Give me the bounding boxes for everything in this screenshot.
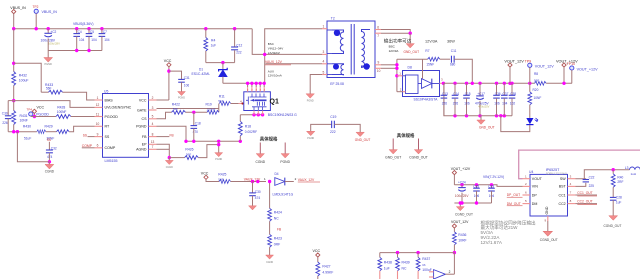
- svg-text:100NF: 100NF: [57, 110, 67, 114]
- ground R423: [266, 255, 274, 259]
- svg-text:VOUT_12V: VOUT_12V: [451, 220, 469, 224]
- resistor R18 0.002RF shunt: [239, 136, 241, 142]
- svg-text:GATE: GATE: [137, 108, 147, 112]
- svg-text:102: 102: [510, 101, 516, 105]
- svg-text:C13: C13: [442, 92, 448, 96]
- svg-text:56F: 56F: [534, 78, 539, 82]
- wire VIN column left: [13, 29, 15, 72]
- svg-text:VCC: VCC: [313, 249, 321, 253]
- transistor Q1 symbol: [246, 94, 267, 105]
- svg-text:EF 25.08: EF 25.08: [330, 82, 344, 86]
- capacitor C23 104: [491, 185, 493, 188]
- svg-text:PGND: PGND: [307, 100, 314, 103]
- svg-text:EP: EP: [142, 143, 147, 147]
- svg-text:VOUT_+12V: VOUT_+12V: [577, 67, 599, 71]
- wire R433 to BIAS pin 1: [63, 92, 95, 100]
- svg-text:R18: R18: [245, 124, 251, 128]
- wire VBUS_IN down: [13, 14, 15, 29]
- pin drain 8 Q1: [259, 83, 261, 87]
- capacitor C14 226: [454, 83, 456, 95]
- svg-text:BSC190N12NS3 G: BSC190N12NS3 G: [268, 113, 297, 117]
- pin 5 CS U5: [149, 118, 157, 120]
- pin 5 T2: [322, 74, 327, 76]
- svg-text:C31: C31: [184, 76, 190, 80]
- svg-text:PGND: PGND: [44, 62, 52, 66]
- svg-text:13: 13: [151, 140, 155, 144]
- svg-text:Q1: Q1: [270, 98, 279, 105]
- pin 7 CC1 U4: [568, 194, 576, 196]
- svg-text:10RF: 10RF: [458, 239, 466, 243]
- svg-text:VCC: VCC: [164, 59, 172, 63]
- svg-text:VBUS_IN: VBUS_IN: [10, 6, 26, 10]
- svg-text:GND_OUT: GND_OUT: [385, 156, 401, 160]
- resistor R430 51uF: [37, 130, 46, 134]
- capacitor C38 102: [511, 83, 513, 95]
- svg-text:6: 6: [377, 25, 379, 29]
- pin drain 5 Q1: [247, 83, 249, 87]
- pin 9 SS U5: [95, 136, 103, 138]
- capacitor C36 106: [496, 83, 498, 95]
- wire pins6-7 tie to GND_OUT: [381, 30, 410, 34]
- svg-text:VIN(7.2V-12V): VIN(7.2V-12V): [483, 175, 504, 179]
- svg-text:GND_OUT: GND_OUT: [355, 138, 371, 142]
- svg-text:7: 7: [377, 34, 379, 38]
- svg-text:1uF: 1uF: [384, 266, 390, 270]
- svg-text:具体规格: 具体规格: [397, 132, 415, 139]
- svg-text:9: 9: [97, 132, 99, 136]
- svg-text:CC1_OUT: CC1_OUT: [577, 191, 592, 195]
- svg-text:C28: C28: [616, 196, 622, 200]
- pin drain 9 Q1: [263, 83, 265, 87]
- op-amp U6 comparator (cut): [434, 270, 446, 279]
- wire CS to R422: [157, 112, 172, 119]
- svg-text:222: 222: [236, 51, 242, 55]
- ground C31: [178, 92, 186, 96]
- svg-text:106: 106: [494, 101, 500, 105]
- svg-text:VOUT: VOUT: [532, 177, 543, 181]
- svg-text:104: 104: [91, 38, 97, 42]
- pin 4 PGND U5: [149, 125, 157, 127]
- svg-text:CGND: CGND: [45, 170, 55, 174]
- svg-text:GND_OUT: GND_OUT: [479, 126, 495, 130]
- svg-text:BST: BST: [559, 185, 567, 189]
- svg-text:5: 5: [323, 70, 325, 74]
- svg-text:2: 2: [449, 270, 451, 274]
- svg-text:10NF: 10NF: [534, 96, 542, 100]
- svg-text:VIN12~34V: VIN12~34V: [268, 47, 283, 51]
- svg-text:225: 225: [589, 184, 595, 188]
- svg-text:R20: R20: [533, 88, 539, 92]
- svg-text:100NF: 100NF: [207, 107, 216, 111]
- ground AGND aux: [306, 94, 314, 98]
- svg-text:PGND: PGND: [307, 137, 314, 140]
- pin 11 PGOOD U5: [95, 116, 103, 118]
- resistor R425 56F: [219, 180, 231, 184]
- resistor R433 56F: [41, 91, 48, 93]
- svg-text:CGND_OUT: CGND_OUT: [540, 238, 558, 242]
- wire R426 to pgnd column: [198, 145, 218, 158]
- wire PGND rail: [186, 140, 240, 142]
- pin 3 D8: [440, 82, 445, 84]
- svg-text:R426: R426: [185, 147, 193, 151]
- svg-text:SS: SS: [47, 138, 51, 142]
- svg-text:PGND: PGND: [136, 125, 147, 129]
- svg-text:10NF: 10NF: [20, 119, 28, 123]
- wire PGND row: [157, 126, 187, 141]
- transformer T2: [327, 21, 375, 78]
- svg-text:R430: R430: [23, 124, 31, 128]
- pin 6 T2: [375, 29, 381, 31]
- svg-text:R436: R436: [458, 233, 466, 237]
- svg-text:NC: NC: [274, 216, 279, 220]
- svg-text:1uF: 1uF: [616, 201, 622, 205]
- svg-text:3: 3: [323, 50, 325, 54]
- wire pins9-10 tie: [381, 64, 397, 66]
- capacitor C25 106: [476, 185, 478, 188]
- diode D8 SS10P4A3/STA: [403, 71, 440, 97]
- svg-text:56F: 56F: [46, 87, 52, 91]
- svg-text:R429: R429: [45, 124, 53, 128]
- resistor R8 56F: [535, 81, 547, 85]
- svg-text:56F: 56F: [186, 152, 191, 156]
- svg-text:输出功率可达: 输出功率可达: [384, 38, 412, 45]
- svg-text:R439: R439: [402, 260, 410, 264]
- svg-text:12V/10mA: 12V/10mA: [268, 74, 282, 78]
- svg-text:3: 3: [152, 106, 154, 110]
- svg-text:4.99KF: 4.99KF: [322, 270, 333, 274]
- svg-text:R19: R19: [206, 102, 212, 106]
- wire VOUT rail: [444, 82, 535, 84]
- resistor R7 15NF: [397, 58, 428, 60]
- resistor R437 100uF: [417, 253, 419, 258]
- pin 10 T2: [375, 67, 381, 69]
- transistor Q1 BSC190N12NS3 G: [244, 92, 271, 111]
- svg-text:C15: C15: [465, 92, 471, 96]
- svg-text:LM5155: LM5155: [105, 159, 118, 163]
- svg-text:R438: R438: [384, 260, 392, 264]
- svg-text:56F: 56F: [218, 99, 223, 103]
- svg-text:VAUX_12V: VAUX_12V: [298, 178, 315, 182]
- ground GND_OUT secondary: [406, 44, 414, 48]
- pin 10 RT U5: [95, 125, 103, 127]
- wire pin3 to SW: [265, 53, 322, 55]
- resistor R424 NC: [269, 182, 271, 209]
- wire snubber into D8 anode: [422, 59, 424, 78]
- capacitor C7 104: [101, 29, 103, 34]
- svg-text:C32: C32: [51, 146, 57, 150]
- svg-text:1uF: 1uF: [211, 43, 217, 47]
- svg-text:C14: C14: [453, 92, 459, 96]
- svg-text:C23: C23: [488, 184, 494, 188]
- svg-text:R40: R40: [617, 175, 623, 179]
- svg-text:VBUS(8-36V): VBUS(8-36V): [73, 22, 94, 26]
- pin 6 DP U4: [523, 194, 531, 196]
- wire R430-R429: [46, 131, 57, 133]
- svg-text:SW: SW: [560, 177, 566, 181]
- resistor R436 10RF: [453, 232, 457, 245]
- svg-text:PGND: PGND: [178, 97, 185, 100]
- ground PGND rail: [218, 141, 220, 152]
- wire TP2 down: [35, 13, 37, 28]
- ground C30: [249, 206, 257, 210]
- pin 2 VIN U4: [523, 185, 531, 187]
- wire Q1 source rail: [240, 114, 264, 116]
- svg-text:C36: C36: [495, 92, 501, 96]
- svg-text:R424: R424: [274, 211, 282, 215]
- capacitor C28 1uF: [610, 196, 617, 198]
- ground GND_OUT legend: [392, 139, 394, 150]
- svg-text:R428: R428: [57, 105, 65, 109]
- svg-text:2A/3EKZ: 2A/3EKZ: [268, 51, 280, 55]
- svg-text:AUX: AUX: [268, 69, 274, 73]
- wire LED return: [501, 116, 530, 132]
- svg-text:C30: C30: [255, 190, 261, 194]
- svg-text:COMP: COMP: [82, 144, 93, 148]
- capacitor C15 106: [466, 83, 468, 95]
- resistor R431 10NF: [13, 101, 15, 111]
- wire branch to R433: [14, 63, 42, 92]
- pin 12 UVLO/EN/SYNC U5: [95, 106, 103, 108]
- svg-text:100u/28V: 100u/28V: [48, 42, 60, 46]
- ground PGND legend: [284, 143, 286, 154]
- svg-text:VCC: VCC: [37, 106, 45, 110]
- winding secondary: [362, 30, 371, 68]
- pin 1 VOUT U4: [523, 178, 531, 180]
- pin 7 AGND U5: [149, 148, 157, 150]
- resistor R40 2RF: [612, 170, 614, 174]
- svg-text:36W: 36W: [447, 40, 455, 44]
- svg-text:R427: R427: [322, 264, 330, 268]
- svg-text:10: 10: [96, 122, 100, 126]
- svg-text:R422: R422: [172, 102, 180, 106]
- svg-text:C19: C19: [330, 115, 336, 119]
- capacitor C31 106: [169, 71, 182, 79]
- svg-text:R437: R437: [422, 257, 430, 261]
- svg-text:C37: C37: [503, 92, 509, 96]
- wire input cap ground rail: [48, 50, 102, 52]
- svg-text:R431: R431: [20, 114, 28, 118]
- wire CGND rail: [17, 132, 49, 162]
- pin 3 T2: [322, 53, 327, 55]
- svg-text:C7: C7: [103, 30, 107, 34]
- pin 7 T2: [375, 32, 381, 34]
- svg-text:10: 10: [377, 69, 381, 73]
- pin 9 T2: [375, 64, 381, 66]
- svg-text:COMP: COMP: [105, 146, 116, 150]
- svg-text:C30: C30: [2, 112, 8, 116]
- resistor R429 36NF: [57, 130, 70, 134]
- svg-text:104: 104: [104, 38, 110, 42]
- resistor R428 100NF: [56, 115, 71, 119]
- resistor R439 NC: [397, 253, 399, 258]
- pin 3 GATE U5: [149, 109, 157, 111]
- capacitor C30 474: [252, 182, 254, 193]
- svg-text:474: 474: [255, 196, 261, 200]
- svg-text:VOUT_12V: VOUT_12V: [504, 59, 524, 63]
- ground CGND_OUT (U4 vin): [459, 203, 461, 207]
- resistor R422 56F: [172, 110, 186, 114]
- svg-text:2RF: 2RF: [617, 180, 623, 184]
- resistor R423 0RF: [268, 234, 272, 247]
- pin 4 gate Q1: [239, 103, 244, 105]
- svg-text:C25: C25: [473, 184, 479, 188]
- wire VIN bus: [14, 28, 253, 30]
- pin 1 D8: [397, 75, 403, 77]
- svg-text:7: 7: [152, 145, 154, 149]
- svg-text:56F: 56F: [218, 177, 223, 181]
- svg-text:D8: D8: [408, 66, 412, 70]
- pin 4 BST U4: [568, 185, 576, 187]
- svg-text:SOP8-1.27-2.54-9: SOP8-1.27-2.54-9: [546, 171, 568, 175]
- capacitor C4 104: [76, 29, 78, 34]
- svg-text:R432: R432: [19, 74, 27, 78]
- resistor R20 10NF: [529, 83, 531, 92]
- wire VIN rail U4: [454, 185, 522, 187]
- svg-text:VAUX_12V: VAUX_12V: [265, 60, 283, 64]
- ground CGND_OUT legend: [418, 139, 420, 150]
- svg-text:222: 222: [330, 130, 336, 134]
- svg-text:FB: FB: [142, 135, 147, 139]
- svg-text:VCC: VCC: [139, 98, 147, 102]
- svg-text:U4: U4: [529, 170, 533, 174]
- ground C19 left: [307, 131, 315, 135]
- svg-text:UVLO/EN/SYNC: UVLO/EN/SYNC: [105, 106, 132, 110]
- svg-text:FB: FB: [277, 228, 281, 232]
- svg-text:CC2: CC2: [558, 202, 565, 206]
- svg-text:226: 226: [453, 101, 459, 105]
- svg-text:100uF: 100uF: [422, 268, 432, 272]
- svg-text:SS10P4A3/STA: SS10P4A3/STA: [414, 98, 439, 102]
- svg-text:DM: DM: [532, 202, 538, 206]
- svg-text:ES1C-42ML: ES1C-42ML: [192, 72, 211, 76]
- wire UVLO branch: [14, 101, 95, 108]
- svg-text:226: 226: [442, 101, 448, 105]
- wire divider bottom rail: [8, 131, 37, 133]
- svg-text:VIN: VIN: [532, 185, 538, 189]
- wire GND_OUT rail: [444, 83, 512, 116]
- svg-text:1: 1: [323, 25, 325, 29]
- svg-text:C18: C18: [195, 121, 201, 125]
- svg-text:+C2: +C2: [50, 30, 56, 34]
- capacitor C30 226: [8, 100, 14, 102]
- svg-text:VBUS_IN: VBUS_IN: [42, 10, 58, 14]
- ground CGND: [48, 162, 50, 165]
- svg-text:AGND: AGND: [136, 148, 147, 152]
- svg-text:CC1: CC1: [558, 193, 565, 197]
- svg-text:FB: FB: [170, 133, 174, 137]
- wire T2 pin5 to ground: [310, 75, 322, 94]
- svg-text:C11: C11: [451, 49, 457, 53]
- svg-text:PGOOD: PGOOD: [105, 115, 119, 119]
- svg-text:R8: R8: [534, 72, 538, 76]
- svg-text:470u/25V: 470u/25V: [478, 104, 489, 108]
- svg-text:C12: C12: [236, 44, 242, 48]
- svg-text:680: 680: [450, 63, 456, 67]
- svg-text:IP6525T: IP6525T: [546, 168, 560, 172]
- resistor R4 1uF snubber: [205, 29, 207, 38]
- svg-text:R423: R423: [274, 237, 282, 241]
- svg-text:12V/1.67A: 12V/1.67A: [481, 240, 503, 245]
- svg-text:DP: DP: [532, 193, 538, 197]
- pin 2 D8: [397, 91, 403, 93]
- ground GND_OUT caps: [480, 116, 482, 120]
- ground CGND_OUT (L3): [609, 216, 618, 221]
- wire R429 to RT pin: [69, 126, 94, 131]
- wire SW to L3: [576, 170, 630, 179]
- wire EP AGND to ground: [157, 144, 170, 157]
- capacitor C11 680: [450, 56, 452, 63]
- svg-text:2: 2: [152, 96, 154, 100]
- capacitor C24 100u/25V: [461, 185, 463, 188]
- wire SW node rail: [223, 82, 265, 84]
- svg-text:C5: C5: [90, 30, 94, 34]
- svg-text:226: 226: [2, 121, 8, 125]
- svg-text:RT: RT: [105, 125, 111, 129]
- svg-text:VAUX_12V: VAUX_12V: [244, 178, 261, 182]
- pin drain 7 Q1: [255, 83, 257, 87]
- svg-text:R425: R425: [218, 173, 226, 177]
- capacitor C17 470u/25V electrolytic: [479, 83, 481, 96]
- capacitor C37 104: [503, 83, 505, 95]
- capacitor C18 470: [193, 112, 195, 125]
- svg-text:L3: L3: [625, 166, 629, 170]
- resistor R427 4.99KF: [316, 262, 320, 276]
- svg-text:DP_OUT: DP_OUT: [507, 193, 520, 197]
- resistor R432 100uF: [12, 72, 16, 86]
- svg-text:C22: C22: [589, 176, 595, 180]
- svg-text:DM_OUT: DM_OUT: [507, 202, 521, 206]
- svg-text:R7: R7: [425, 49, 429, 53]
- capacitor C32 474: [48, 142, 50, 150]
- svg-text:BIAS: BIAS: [105, 98, 114, 102]
- svg-text:56F: 56F: [173, 107, 178, 111]
- pin source Q1: [253, 111, 255, 115]
- svg-text:TP4: TP4: [27, 108, 33, 112]
- svg-text:TP10: TP10: [567, 62, 576, 66]
- svg-text:R11: R11: [219, 95, 225, 99]
- resistor R438 1uF: [379, 253, 381, 258]
- svg-text:TP2: TP2: [33, 5, 39, 9]
- wire VCC pin2: [157, 99, 169, 101]
- pin 13 EP U5: [149, 143, 157, 145]
- wire VIN jog to transformer: [252, 29, 265, 55]
- svg-text:C38: C38: [510, 92, 516, 96]
- pin 2 VCC U5: [149, 99, 157, 101]
- svg-text:11: 11: [96, 112, 100, 116]
- svg-text:9: 9: [378, 61, 380, 65]
- svg-text:104: 104: [79, 38, 85, 42]
- svg-text:U6: U6: [422, 263, 426, 267]
- net label CC1_OUT: [576, 194, 598, 196]
- svg-text:BSC: BSC: [268, 42, 275, 46]
- svg-text:C4: C4: [78, 30, 82, 34]
- pin 5 DM U4: [523, 203, 531, 205]
- svg-text:0.002RF: 0.002RF: [245, 130, 257, 134]
- svg-text:VOUT_12V: VOUT_12V: [535, 64, 554, 68]
- svg-text:0RF: 0RF: [274, 242, 280, 246]
- svg-text:15NF: 15NF: [426, 63, 434, 67]
- svg-text:CGND_OUT: CGND_OUT: [409, 156, 428, 160]
- resistor R19 100NF: [207, 110, 219, 114]
- svg-text:VOUT_+12V: VOUT_+12V: [451, 167, 471, 171]
- wire divider rail: [380, 252, 455, 254]
- svg-text:VCC: VCC: [201, 172, 209, 176]
- wire VOUT pin1 feedback (pink): [519, 150, 640, 179]
- LED D indicator: [526, 118, 533, 124]
- svg-text:CS: CS: [142, 117, 148, 121]
- svg-text:6: 6: [97, 144, 99, 148]
- svg-text:GND: GND: [545, 206, 549, 214]
